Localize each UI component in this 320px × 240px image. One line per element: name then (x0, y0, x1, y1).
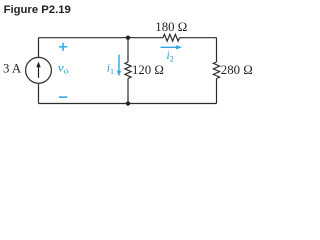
label i2 current (167, 50, 174, 64)
node top junction dot (126, 36, 130, 40)
resistor 280 ohm (right branch) (213, 62, 219, 79)
label plus sign of vo polarity (59, 43, 67, 51)
wire right branch upper segment (216, 38, 218, 62)
wire middle branch upper segment (127, 38, 129, 62)
svg-text:280 Ω: 280 Ω (221, 63, 253, 77)
wire middle branch lower segment (127, 79, 129, 104)
svg-text:i2: i2 (167, 50, 174, 64)
label minus sign of vo polarity (59, 96, 67, 98)
wire left branch lower segment (38, 83, 40, 103)
figure title Figure P2.19 (4, 4, 71, 16)
arrow i1 (pointing down) (117, 55, 121, 77)
label 280 ohm value (221, 63, 253, 77)
wire top-left horizontal segment (39, 37, 164, 39)
svg-text:vo: vo (58, 60, 69, 75)
wire left branch upper segment (38, 38, 40, 58)
svg-text:120 Ω: 120 Ω (132, 63, 164, 77)
arrow i2 (pointing right) (161, 45, 182, 49)
current source 3 A (circle) (26, 57, 52, 83)
wire right branch lower segment (216, 79, 218, 104)
label 180 ohm value (155, 20, 187, 34)
label 3 A source value (3, 61, 22, 75)
label 120 ohm value (132, 63, 164, 77)
label i1 current (107, 63, 114, 77)
svg-text:i1: i1 (107, 63, 114, 77)
svg-text:180 Ω: 180 Ω (155, 20, 187, 34)
node bottom junction dot (126, 101, 130, 105)
wire top-right horizontal segment (180, 37, 217, 39)
current source arrow (pointing up) (36, 62, 40, 78)
svg-text:Figure P2.19: Figure P2.19 (4, 4, 71, 16)
label vo voltage (58, 60, 69, 75)
resistor 120 ohm (middle branch) (125, 62, 131, 79)
resistor 180 ohm (top branch) (163, 34, 180, 41)
svg-text:3 A: 3 A (3, 61, 22, 75)
wire bottom horizontal segment (39, 103, 217, 105)
